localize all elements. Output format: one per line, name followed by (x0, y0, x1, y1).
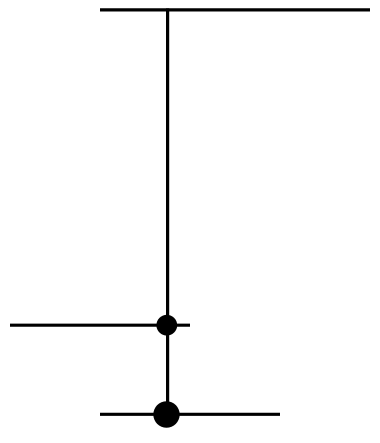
wire bottom horizontal (100, 413, 280, 416)
wire top rail horizontal (100, 8, 370, 11)
junction node bottom (153, 401, 179, 427)
wire vertical bus (166, 8, 169, 414)
wire middle horizontal (10, 324, 190, 327)
junction node middle (156, 315, 177, 336)
